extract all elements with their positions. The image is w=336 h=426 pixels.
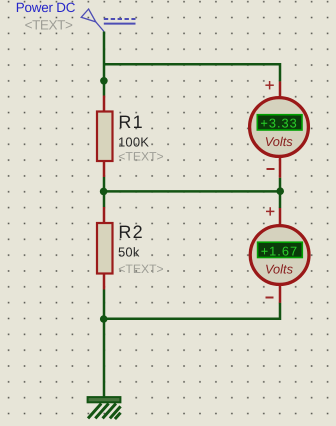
svg-text:Volts: Volts — [265, 262, 294, 277]
svg-text:<TEXT>: <TEXT> — [118, 262, 163, 276]
svg-text:Volts: Volts — [265, 134, 294, 149]
wire: R1 bottom to mid node — [103, 177, 106, 207]
voltmeter U1 body — [250, 98, 309, 157]
pin - (U2 bottom) — [279, 286, 282, 303]
label - (U2) — [266, 297, 274, 299]
wire: mid branch — [104, 190, 280, 193]
voltmeter U1 — [250, 81, 309, 177]
label + (U1) — [265, 81, 273, 89]
LCD display U1 — [257, 115, 302, 130]
svg-text:100K: 100K — [118, 135, 149, 150]
node junction dot (mid right) — [276, 187, 284, 195]
wire: voltmeter U1 minus to mid node — [279, 178, 282, 192]
voltmeter U2 body — [250, 226, 309, 285]
svg-text:50k: 50k — [118, 245, 140, 260]
voltmeter U2 — [250, 208, 309, 303]
pin 2 (R1 bottom) — [103, 161, 106, 177]
svg-text:+1.67: +1.67 — [261, 243, 298, 258]
pin + (U2 top) — [279, 208, 282, 224]
wire: bottom branch — [104, 303, 280, 319]
ground bar — [88, 397, 121, 402]
node junction dot (power / R1) — [100, 77, 108, 85]
LCD display U2 — [258, 242, 303, 257]
resistor R1 body — [97, 112, 113, 162]
svg-text:R1: R1 — [118, 112, 143, 132]
label - (U1) — [267, 168, 275, 170]
svg-text:<TEXT>: <TEXT> — [25, 18, 73, 33]
label + (U2) — [266, 207, 274, 215]
svg-text:+3.33: +3.33 — [260, 116, 297, 131]
resistor R1 — [97, 96, 113, 178]
pin + (U1 top) — [279, 81, 282, 96]
power terminal P1 (DC power symbol) — [81, 9, 135, 32]
svg-text:R2: R2 — [118, 222, 143, 242]
wire: mid node to voltmeter U2 plus — [279, 191, 282, 208]
pin 1 (R1 top) — [103, 96, 106, 112]
pin 1 (R2 top) — [103, 207, 106, 223]
svg-text:<TEXT>: <TEXT> — [118, 149, 163, 163]
wire: power vertical drop — [103, 32, 106, 96]
node junction dot (mid left) — [100, 188, 108, 196]
pin - (U1 bottom) — [279, 158, 282, 178]
wire: R2 bottom to ground — [103, 290, 106, 398]
svg-text:Power DC: Power DC — [16, 0, 76, 15]
pin 2 (R2 bottom) — [103, 274, 106, 290]
ground — [88, 397, 121, 419]
node junction dot (bottom) — [100, 315, 108, 323]
resistor R2 body — [97, 223, 113, 274]
wire: top branch to voltmeter U1 — [104, 64, 280, 81]
resistor R2 — [97, 207, 113, 290]
